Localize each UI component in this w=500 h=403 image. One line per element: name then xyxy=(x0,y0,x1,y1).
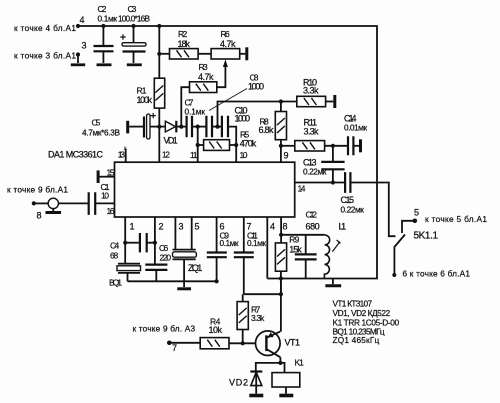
svg-text:VT1: VT1 xyxy=(285,338,301,348)
capacitor C4 xyxy=(125,242,139,244)
svg-text:C15: C15 xyxy=(341,195,355,205)
wire tank top line xyxy=(281,234,325,236)
svg-text:ZQ1 465кГц: ZQ1 465кГц xyxy=(333,335,380,345)
resistor R6 trimmer xyxy=(211,49,240,59)
ground under C3 xyxy=(127,63,142,66)
svg-text:15: 15 xyxy=(107,168,115,178)
ground under tank line xyxy=(332,279,334,285)
ground under VD2 xyxy=(249,394,263,398)
pin 1 wire xyxy=(124,217,126,263)
svg-text:4.7мк*6.3В: 4.7мк*6.3В xyxy=(82,128,120,138)
capacitor C10 xyxy=(222,116,228,138)
svg-text:8: 8 xyxy=(283,222,288,232)
capacitor C8 xyxy=(206,116,212,138)
ground under point3 xyxy=(71,63,85,66)
capacitor C3 electrolytic xyxy=(133,26,135,42)
transistor VT1 xyxy=(255,331,280,356)
pointer line from C8 label xyxy=(209,89,247,111)
svg-text:11: 11 xyxy=(190,150,198,160)
svg-text:5K1.1: 5K1.1 xyxy=(414,231,439,242)
svg-text:R2: R2 xyxy=(178,29,187,39)
resistor R7 xyxy=(242,294,244,301)
connector circle symbol xyxy=(48,198,58,208)
svg-text:10k: 10k xyxy=(209,325,223,335)
ground under K1 xyxy=(279,394,293,398)
terminal bar after R10 xyxy=(333,95,336,108)
svg-text:4: 4 xyxy=(80,15,85,25)
capacitor C12 xyxy=(305,235,307,254)
capacitor C1 xyxy=(89,192,96,215)
svg-text:1000: 1000 xyxy=(248,82,264,92)
capacitor C14 xyxy=(348,136,353,155)
crystal BQ1 xyxy=(118,263,140,265)
wire C10 right down to pin 10 xyxy=(228,127,236,163)
pin 3 wire xyxy=(174,217,176,249)
pin 13 stub with asterisk xyxy=(125,149,127,163)
capacitor C7 xyxy=(187,116,192,138)
trimmer arrow of L1 xyxy=(332,240,340,252)
svg-text:4: 4 xyxy=(270,222,275,232)
svg-text:3: 3 xyxy=(179,222,184,232)
diode VD2 xyxy=(250,370,262,372)
resistor R8 xyxy=(280,102,282,112)
wire point 8 to circle symbol xyxy=(34,202,48,204)
wire squelch line left to R7 xyxy=(244,293,281,295)
svg-text:VD2: VD2 xyxy=(229,378,248,388)
resistor R9 xyxy=(275,243,286,271)
wire top rail from point 4 to right corner and down to tank bottom xyxy=(78,26,377,279)
wire point3 to ground xyxy=(77,55,79,64)
wire ground line BQ1 C6 C9 xyxy=(128,280,217,282)
pin 7 wire xyxy=(243,217,245,252)
svg-text:100.0*16В: 100.0*16В xyxy=(118,14,150,24)
wire rail branch down to R1 and R2 xyxy=(158,26,160,78)
svg-text:680: 680 xyxy=(306,222,320,232)
pin 4 wire down to tank bottom line xyxy=(266,217,268,279)
wire C15 to switch bracket xyxy=(350,183,395,237)
svg-text:4.7k: 4.7k xyxy=(220,39,236,49)
svg-text:3.3k: 3.3k xyxy=(304,126,320,136)
resistor R1 xyxy=(154,78,164,108)
svg-text:100k: 100k xyxy=(137,95,153,105)
svg-text:VD1: VD1 xyxy=(164,135,178,145)
capacitor C2 xyxy=(102,26,104,45)
svg-text:ZQ1: ZQ1 xyxy=(188,263,202,273)
pin 15 stub and terminal bar xyxy=(99,176,114,178)
svg-text:6 к точке 6 бл.А1: 6 к точке 6 бл.А1 xyxy=(403,269,471,279)
ground under C2 xyxy=(97,63,112,66)
wire R3 left down to signal line xyxy=(181,87,189,126)
svg-text:3.3k: 3.3k xyxy=(251,313,265,323)
svg-text:470k: 470k xyxy=(240,138,257,148)
diode VD1 xyxy=(165,121,175,132)
svg-text:68: 68 xyxy=(110,251,118,261)
svg-text:BQ1: BQ1 xyxy=(109,278,122,288)
svg-text:R6: R6 xyxy=(221,29,230,39)
svg-text:0.1мк: 0.1мк xyxy=(98,14,118,24)
terminal bar after C14 xyxy=(359,139,362,152)
svg-text:14: 14 xyxy=(298,184,306,194)
wire circle to C1 xyxy=(59,202,89,204)
ground under circle symbol xyxy=(52,209,54,211)
wire R3 right up to R6 wiper arrow xyxy=(217,64,226,87)
wire pin 11 branch down from C7 right node xyxy=(197,127,199,163)
svg-text:R9: R9 xyxy=(289,234,299,244)
plus sign of C3 xyxy=(120,34,125,39)
svg-text:R1: R1 xyxy=(137,85,147,95)
svg-text:0.1мк: 0.1мк xyxy=(247,238,266,248)
plus sign of C5 xyxy=(151,113,156,118)
resistor R3 xyxy=(190,82,217,93)
node point 8 input dot xyxy=(32,201,36,205)
capacitor C13 xyxy=(332,146,334,162)
svg-text:0.1мк: 0.1мк xyxy=(185,107,206,117)
relay K1 xyxy=(272,373,300,387)
svg-text:15k: 15k xyxy=(289,245,302,255)
svg-text:C5: C5 xyxy=(92,117,101,127)
capacitor C15 xyxy=(345,172,350,193)
svg-text:4.7k: 4.7k xyxy=(198,72,214,82)
svg-text:K1: K1 xyxy=(295,358,305,368)
svg-text:к точке 3 бл.А1: к точке 3 бл.А1 xyxy=(14,51,76,61)
svg-text:220: 220 xyxy=(160,253,172,263)
svg-text:к точке 9 бл.А1: к точке 9 бл.А1 xyxy=(7,185,68,195)
wire R1 bottom to signal node and pin 12 xyxy=(158,108,160,162)
svg-text:C4: C4 xyxy=(110,241,119,251)
capacitor C6 xyxy=(145,265,167,270)
capacitor C9 xyxy=(207,253,227,258)
svg-text:0.22мк: 0.22мк xyxy=(341,204,365,214)
terminal bar after R6 xyxy=(245,47,248,60)
resistor R11 xyxy=(281,145,295,147)
svg-text:0.22мк: 0.22мк xyxy=(303,166,327,176)
svg-text:к точке 5 бл.А1: к точке 5 бл.А1 xyxy=(425,214,487,224)
switch 5K1.1 xyxy=(413,219,418,224)
svg-text:к точке 9 бл. А3: к точке 9 бл. А3 xyxy=(133,324,196,334)
pin 2 wire xyxy=(154,217,156,264)
node point3 input dot xyxy=(76,52,80,56)
capacitor C11 xyxy=(234,253,254,258)
svg-text:9: 9 xyxy=(284,151,289,161)
pin 5 wire xyxy=(191,217,193,249)
resistor R4 xyxy=(169,342,200,344)
pin 8 wire xyxy=(280,217,282,243)
wire collector line to VD2 and K1 xyxy=(256,363,285,373)
node point 7 input dot xyxy=(167,341,172,346)
svg-text:DA1 МС3361C: DA1 МС3361C xyxy=(48,150,104,160)
wire branch up from C8/C10 node to R8 R10 line xyxy=(218,102,297,127)
wire tank bottom junction down to squelch line and VT1 xyxy=(280,279,282,332)
svg-text:0.1мк: 0.1мк xyxy=(220,238,239,248)
ground under ZQ1 xyxy=(177,287,191,290)
pin 6 wire xyxy=(216,217,218,252)
svg-text:10: 10 xyxy=(240,150,248,160)
resistor R5 xyxy=(198,144,204,146)
wire input to C5 xyxy=(129,126,143,128)
svg-text:2: 2 xyxy=(159,222,164,232)
resistor R10 xyxy=(297,96,326,106)
svg-text:7: 7 xyxy=(172,343,177,353)
terminal bar input to C5 xyxy=(126,121,129,134)
svg-text:8: 8 xyxy=(37,211,42,221)
svg-text:C3: C3 xyxy=(128,4,137,14)
svg-text:12: 12 xyxy=(162,150,170,160)
ceramic filter ZQ1 xyxy=(173,249,196,251)
svg-text:L1: L1 xyxy=(339,222,347,232)
svg-text:5: 5 xyxy=(195,222,200,232)
svg-text:3: 3 xyxy=(82,41,87,51)
inductor L1 xyxy=(324,235,329,279)
svg-text:C2: C2 xyxy=(98,4,107,14)
svg-text:0.01мк: 0.01мк xyxy=(344,122,367,132)
resistor R2 xyxy=(159,53,169,55)
svg-text:R3: R3 xyxy=(199,62,208,72)
capacitor C5 electrolytic xyxy=(143,117,145,138)
svg-text:5: 5 xyxy=(414,208,419,218)
svg-text:C6: C6 xyxy=(159,243,168,253)
svg-text:1: 1 xyxy=(130,222,135,232)
svg-text:1000: 1000 xyxy=(235,113,251,123)
IC DA1 body xyxy=(115,162,295,217)
svg-text:к точке 4 бл.А1: к точке 4 бл.А1 xyxy=(14,23,76,33)
svg-text:C12: C12 xyxy=(306,210,318,220)
wire pin 14 to C15 xyxy=(295,182,345,184)
svg-text:10: 10 xyxy=(101,191,109,201)
svg-text:3.3k: 3.3k xyxy=(303,85,319,95)
node point4 input dot xyxy=(76,24,80,28)
svg-text:6.8k: 6.8k xyxy=(259,125,275,135)
svg-text:16: 16 xyxy=(107,206,115,216)
svg-text:18k: 18k xyxy=(178,39,191,49)
